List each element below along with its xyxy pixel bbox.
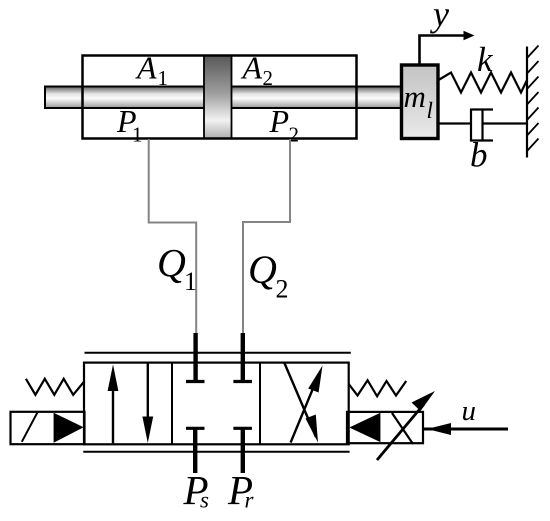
svg-text:b: b [470, 136, 488, 175]
wall hatch 5 [527, 108, 539, 121]
piston [204, 56, 232, 139]
y displacement arrow [420, 36, 466, 66]
T-bar bottom-right [233, 427, 252, 430]
valve bottom outer line [83, 451, 349, 453]
crossed arrowhead pointing NE [308, 366, 322, 393]
proportional diagonal arrow shaft [377, 404, 424, 460]
port stub bottom-left Ps [193, 428, 197, 473]
mass block m_l [402, 65, 439, 139]
T-bar bottom-left [186, 427, 205, 430]
svg-text:1: 1 [132, 123, 143, 147]
port stub top-right [241, 333, 245, 382]
crossed arrow SW-NE shaft [291, 386, 314, 443]
right return spring [349, 380, 407, 396]
u arrowhead [427, 423, 451, 435]
cylinder body [83, 56, 357, 139]
wall hatch 7 [527, 139, 539, 152]
right solenoid X stroke [392, 413, 413, 444]
svg-text:r: r [245, 488, 255, 513]
piston rod [45, 87, 402, 109]
wire P2 to valve port B [243, 139, 290, 334]
T-bar top-left [186, 380, 205, 383]
crossed line NW-SE [284, 363, 316, 438]
wall hatch 4 [527, 92, 539, 105]
port stub bottom-right Pr [241, 428, 245, 473]
svg-text:Q: Q [157, 241, 186, 286]
left position up arrow shaft [112, 387, 114, 443]
svg-text:2: 2 [263, 66, 274, 90]
svg-text:Q: Q [248, 247, 277, 292]
u input line [423, 428, 509, 431]
svg-text:1: 1 [158, 66, 169, 90]
wall hatch 6 [527, 123, 539, 136]
svg-text:m: m [404, 79, 426, 114]
wall hatch 3 [527, 77, 539, 90]
left return spring [26, 379, 84, 395]
spring k [439, 73, 528, 93]
svg-text:A: A [241, 50, 263, 86]
proportional arrowhead [412, 391, 436, 411]
right solenoid triangle [349, 413, 380, 442]
svg-text:1: 1 [184, 267, 197, 296]
wire P1 to valve port A [149, 139, 197, 334]
svg-text:2: 2 [276, 275, 289, 304]
left position up arrowhead [108, 365, 119, 392]
wall hatch 2 [527, 61, 539, 74]
damper rod from mass [439, 122, 472, 124]
crossed arrowhead pointing SE [306, 415, 319, 443]
valve body [84, 363, 349, 445]
svg-text:s: s [200, 488, 209, 513]
left solenoid slash [22, 413, 38, 442]
valve top outer line [85, 352, 351, 354]
left position down arrow shaft [147, 363, 149, 418]
damper rod to wall [483, 122, 528, 124]
wall line [526, 47, 528, 158]
left position down arrowhead [142, 417, 153, 444]
T-bar top-right [233, 380, 252, 383]
left solenoid box [11, 412, 85, 444]
port stub top-left [193, 333, 197, 382]
svg-text:A: A [135, 50, 157, 86]
damper piston [481, 110, 483, 141]
right solenoid box [347, 412, 423, 443]
wall hatch 1 [527, 46, 539, 59]
valve divider left [171, 363, 173, 445]
y arrowhead [464, 31, 475, 41]
svg-text:k: k [477, 40, 494, 79]
left solenoid triangle [54, 413, 84, 443]
svg-text:P: P [269, 103, 290, 139]
damper cup [471, 110, 493, 141]
svg-text:l: l [427, 98, 433, 123]
valve divider right [259, 363, 261, 445]
svg-text:u: u [462, 395, 477, 427]
svg-text:y: y [430, 0, 449, 34]
